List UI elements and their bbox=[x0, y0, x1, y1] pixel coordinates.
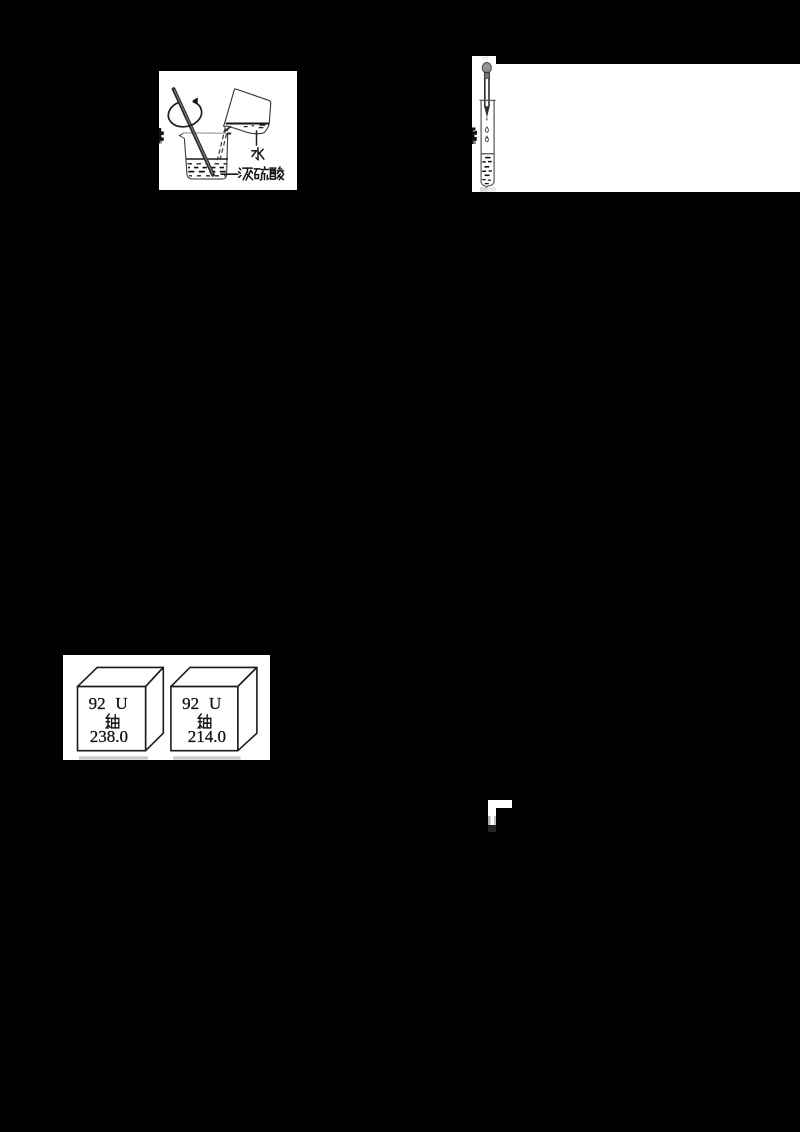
label: water (shui) glyph bbox=[252, 148, 264, 160]
liquid dashes bbox=[485, 157, 490, 159]
big beaker rim line bbox=[183, 132, 229, 134]
stirring rod bbox=[174, 89, 213, 175]
label: suan (acid) glyph bbox=[270, 167, 284, 180]
pointer line to water label bbox=[256, 130, 258, 146]
white strip: dropper + test tube bbox=[472, 56, 496, 192]
grey bar under cube 1 bbox=[79, 756, 148, 759]
cube 2 bbox=[171, 667, 257, 750]
falling drop 2 bbox=[485, 136, 488, 141]
dropper taper tip bbox=[484, 106, 490, 117]
liquid surface in tube bbox=[481, 153, 494, 155]
cut-off text fragment at left edge bbox=[472, 128, 477, 145]
white panel: uranium cubes bbox=[63, 655, 270, 760]
falling drop 1 bbox=[485, 127, 488, 132]
grey bar under cube 2 bbox=[173, 756, 241, 759]
gamma-shaped white fragment bbox=[488, 800, 512, 808]
acid liquid surface bbox=[186, 158, 228, 160]
cube 1 text: 92 U bbox=[89, 694, 106, 714]
cut-off text fragment at left edge bbox=[159, 128, 164, 144]
label: nong (concentrated) glyph bbox=[239, 168, 253, 180]
acid dashed rows bbox=[188, 163, 228, 165]
test tube left wall bbox=[480, 101, 482, 183]
cube 1 bbox=[78, 667, 164, 750]
cube 2 text: 214.0 bbox=[188, 727, 226, 747]
faint grey patch top bbox=[482, 56, 488, 59]
white panel: acid dilution diagram bbox=[159, 71, 297, 190]
water level line in tilted beaker bbox=[226, 123, 269, 125]
pointer line to acid label bbox=[221, 173, 239, 175]
dropper rubber bulb bbox=[482, 62, 491, 72]
test tube rim bbox=[480, 99, 496, 101]
beaker left spout bbox=[179, 134, 184, 139]
cube 2 text: uranium glyph bbox=[197, 713, 213, 729]
cube 1 text: 238.0 bbox=[90, 727, 128, 747]
beaker right spout lip bbox=[224, 126, 231, 132]
wide white rectangle right of test tube bbox=[496, 64, 800, 192]
cube 1 text: uranium glyph bbox=[105, 713, 121, 729]
tilted pouring beaker bbox=[224, 89, 271, 134]
test tube right wall bbox=[493, 101, 495, 183]
cube 2 text: 92 U bbox=[182, 694, 199, 714]
dropper collar bbox=[484, 73, 489, 79]
faint grey patch bottom bbox=[480, 187, 488, 192]
beaker left wall and bottom bbox=[184, 133, 227, 179]
small dashes of water in tilted beaker bbox=[244, 126, 248, 128]
rotation ellipse arrow bbox=[168, 102, 201, 127]
dropper stem bbox=[484, 78, 486, 106]
pouring stream (dashed) bbox=[217, 128, 225, 161]
label: liu (sulfur) glyph bbox=[254, 167, 268, 180]
test tube round bottom bbox=[481, 182, 494, 187]
